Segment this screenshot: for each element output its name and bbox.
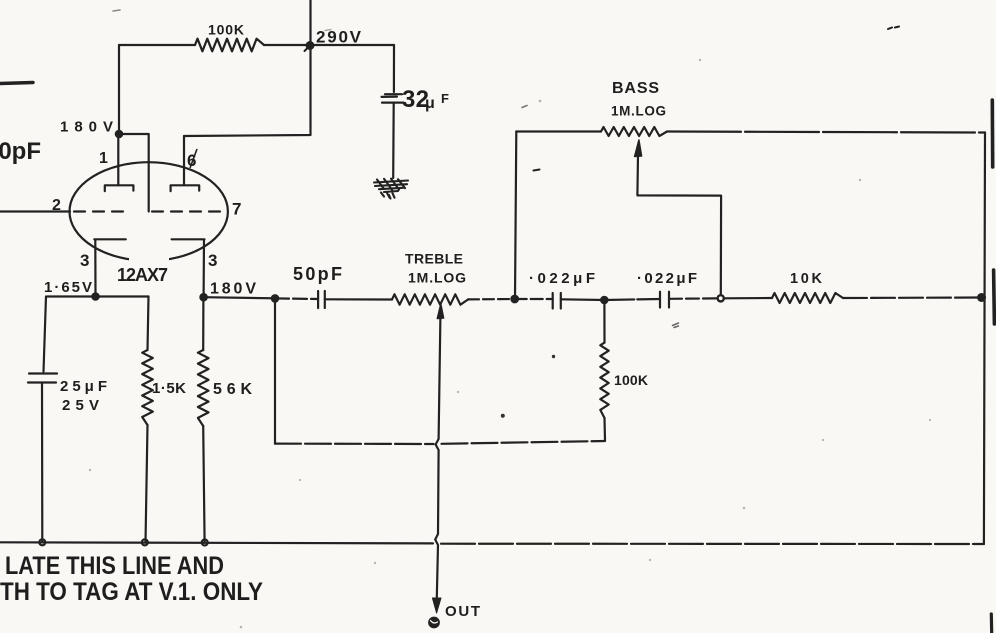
grid V1b (pin 7) dashed — [152, 210, 228, 212]
anode V1a (pin 1) — [105, 134, 134, 191]
wire: cap2 to bass return node — [669, 297, 717, 300]
tube V1 12AX7 envelope — [70, 162, 228, 261]
capacitor 0.022uF (second) — [660, 292, 669, 308]
resistor 56K — [202, 297, 204, 350]
wire: bass pot line right segment — [667, 132, 985, 133]
svg-text:F: F — [441, 91, 449, 106]
svg-text:1: 1 — [99, 150, 108, 167]
right edge page-tear marks — [990, 100, 994, 167]
node: earth rail 56K (open) — [202, 540, 208, 546]
resistor 1.5K cathode bias — [148, 297, 149, 351]
potentiometer BASS 1M log track — [601, 127, 667, 136]
capacitor 25uF cathode bypass — [28, 374, 57, 383]
node 180V — [116, 131, 122, 137]
wire: 180V feed down from top rail — [118, 45, 120, 134]
cathode V1a (pin 3) — [94, 239, 126, 296]
resistor 100K (anode load) — [195, 39, 264, 52]
wire: anode pin6 to HT node — [184, 45, 311, 136]
node: bass left junction — [511, 296, 518, 303]
svg-text:1·5K: 1·5K — [152, 380, 186, 397]
ground (chassis earth scribble) — [374, 179, 408, 199]
node: feedback takeoff — [272, 295, 278, 301]
capacitor 50pF — [318, 291, 325, 308]
node: right junction — [978, 294, 985, 301]
svg-text:μ: μ — [425, 95, 435, 112]
potentiometer TREBLE 1M log track — [392, 294, 468, 304]
treble wiper arrow — [437, 304, 443, 319]
wire: HT supply vertical from top edge — [309, 0, 311, 45]
svg-text:180V: 180V — [210, 281, 256, 298]
node: cathode V1b junction — [200, 294, 206, 300]
svg-text:56K: 56K — [213, 381, 252, 398]
wire: 25uF to earth rail — [41, 383, 43, 543]
paper speckles (scan noise) — [89, 59, 931, 629]
wire: 50pF to treble pot — [325, 298, 392, 300]
node: 100K junction — [601, 297, 607, 303]
svg-text:·022μF: ·022μF — [637, 270, 697, 287]
wire: top rail right of 100K — [264, 44, 394, 46]
node: earth rail 1.5K (open) — [142, 539, 148, 545]
wire: treble pot to bass node — [468, 298, 515, 301]
wire: main signal line 56K node to feedback node — [204, 297, 275, 298]
bass wiper arrow — [635, 140, 642, 157]
node: bass return (open circle) — [718, 295, 724, 301]
resistor 10K series output — [772, 293, 843, 303]
wire: earth rail — [0, 542, 433, 543]
svg-text:12AX7: 12AX7 — [117, 265, 168, 285]
wire: bass pot line left segment — [516, 130, 601, 132]
node 290V junction — [307, 42, 314, 49]
svg-text:3: 3 — [208, 251, 217, 270]
svg-text:·022μF: ·022μF — [529, 270, 595, 287]
resistor 100K to lower line — [603, 300, 605, 343]
OUT terminal blob — [429, 617, 439, 627]
wire: right vertical bass/earth return — [984, 133, 985, 545]
anode V1b (pin 6) — [171, 136, 200, 191]
capacitor 0.022uF (first) — [553, 293, 561, 309]
svg-text:100K: 100K — [208, 22, 244, 38]
svg-text:2: 2 — [52, 197, 61, 214]
wire: lower (earthy) line — [274, 298, 276, 443]
svg-text:TREBLE: TREBLE — [405, 251, 463, 267]
wire: cap1 to 100K node — [561, 298, 605, 301]
svg-text:100K: 100K — [614, 372, 648, 388]
svg-text:LATE THIS LINE AND: LATE THIS LINE AND — [5, 552, 224, 580]
wire: input coupling stub top left — [0, 83, 33, 84]
svg-text:50pF: 50pF — [293, 264, 342, 284]
capacitor 32uF — [382, 94, 404, 102]
wire: cathode junction horizontal — [47, 295, 149, 297]
wire: bass pot left leg up from main line — [515, 132, 516, 300]
wire: 180V node across to grid step of V1b — [119, 134, 149, 212]
OUT arrow head — [432, 598, 441, 613]
wire: 10K to right vertical — [843, 296, 981, 299]
svg-text:3: 3 — [80, 251, 89, 270]
svg-text:1M.LOG: 1M.LOG — [408, 270, 466, 286]
wire: 32uF to ground — [392, 103, 395, 178]
node: cathode V1a junction — [92, 293, 98, 299]
svg-text:25V: 25V — [62, 397, 99, 414]
wire: input to grid pin 2 — [0, 210, 70, 212]
paper specks — [888, 27, 899, 30]
svg-text:OUT: OUT — [445, 603, 480, 620]
wire: 100K node to cap2 — [604, 299, 660, 300]
svg-text:290V: 290V — [316, 28, 362, 47]
svg-text:1M.LOG: 1M.LOG — [611, 104, 666, 119]
svg-text:7: 7 — [232, 200, 241, 219]
wire: drop to 32uF reservoir cap — [393, 45, 395, 92]
node: earth rail 25uF (open) — [39, 539, 45, 545]
svg-text:1·65V: 1·65V — [44, 279, 92, 296]
svg-text:00pF: 00pF — [0, 138, 41, 165]
wire: main line to .022 cap1 — [515, 298, 553, 300]
svg-text:TH TO TAG AT V.1. ONLY: TH TO TAG AT V.1. ONLY — [0, 578, 263, 606]
wire: to 50pF — [275, 297, 318, 300]
svg-text:10K: 10K — [790, 271, 823, 287]
wire: node to 10K — [724, 297, 772, 299]
cathode V1b (pin 8) — [172, 239, 205, 297]
wire: top rail left of 100K — [119, 44, 195, 46]
svg-text:BASS: BASS — [612, 80, 659, 97]
grid V1a (pin 2) dashed — [74, 210, 126, 212]
wire: down to 25uF — [44, 297, 47, 372]
